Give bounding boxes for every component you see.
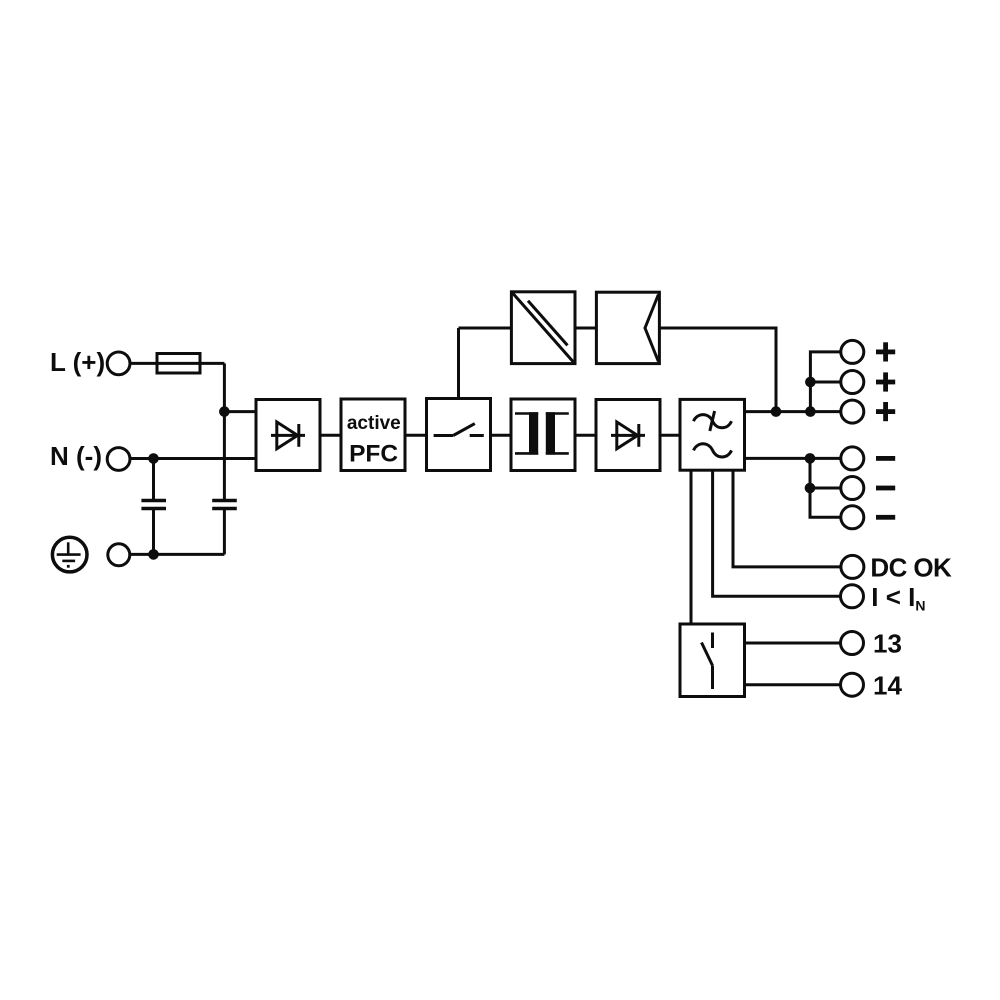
terminal DC OK circle (841, 555, 864, 578)
wire PFC to switch (405, 434, 427, 437)
svg-text:active: active (347, 413, 401, 434)
terminal 13 circle (841, 632, 864, 655)
terminal N circle (107, 448, 130, 471)
wire DC OK (733, 470, 841, 567)
wire relay to 13 (745, 642, 841, 645)
wire switch to transformer (491, 434, 512, 437)
wire minus middle stub (810, 487, 841, 490)
svg-text:DC OK: DC OK (870, 553, 952, 583)
wire diode to filter (660, 434, 680, 437)
terminal minus 2 circle (841, 477, 864, 500)
node ground junction (148, 549, 159, 560)
node feedback junction (771, 406, 782, 417)
wire filter to relay (690, 470, 693, 624)
PFC block (341, 399, 405, 471)
node minus middle junction (805, 483, 816, 494)
capacitor C1 (141, 459, 166, 555)
plus sign 1 (876, 342, 895, 361)
node N junction (148, 453, 159, 464)
switch block S1 (427, 399, 491, 471)
wire transformer to diode (575, 434, 596, 437)
wire N to rectifier (130, 457, 256, 460)
terminal I&lt;In circle (841, 585, 864, 608)
amplifier block (596, 292, 659, 363)
wire relay to 14 (745, 683, 841, 686)
wire minus output (745, 457, 841, 460)
node plus bus junction (805, 406, 816, 417)
svg-text:L (+): L (+) (50, 347, 105, 377)
isolation amplifier block (optocoupler) (511, 292, 575, 364)
plus sign 2 (876, 372, 895, 391)
wire junction to rectifier (224, 410, 256, 413)
plus sign 3 (876, 402, 895, 421)
terminal minus 3 circle (841, 506, 864, 529)
wire fuse corner down to capacitor C2 (223, 363, 226, 500)
wire isolation to amplifier (575, 327, 596, 330)
terminal plus 2 circle (841, 371, 864, 394)
wire L to fuse corner (130, 362, 224, 365)
terminal plus 1 circle (841, 340, 864, 363)
svg-text:PFC: PFC (349, 440, 398, 467)
wire switch top feedback riser (457, 328, 460, 399)
transformer T1 block (511, 399, 575, 471)
relay contact block (680, 624, 745, 697)
fuse F1 (157, 354, 200, 374)
svg-text:14: 14 (873, 671, 902, 701)
node minus bus junction (805, 453, 816, 464)
minus sign 2 (876, 486, 895, 491)
wire plus output (745, 410, 841, 413)
terminal plus 3 circle (841, 400, 864, 423)
wire minus bus dropper (810, 458, 841, 517)
node plus middle junction (805, 377, 816, 388)
wire amplifier to output junction (659, 328, 776, 412)
wire plus middle stub (810, 381, 840, 384)
PE protective earth symbol (52, 537, 87, 572)
svg-text:N (-): N (-) (50, 441, 102, 471)
wire rectifier to PFC (320, 434, 341, 437)
terminal minus 1 circle (841, 447, 864, 470)
wire ground bus (130, 553, 224, 556)
wire feedback to isolation block (459, 327, 512, 330)
terminal 14 circle (841, 673, 864, 696)
minus sign 1 (876, 456, 895, 461)
output filter block (680, 399, 745, 470)
terminal L circle (107, 352, 130, 375)
node L junction (219, 406, 230, 417)
diode block D1 (596, 400, 660, 471)
ground terminal circle (108, 544, 130, 566)
capacitor C2 (212, 501, 237, 555)
rectifier block (256, 400, 320, 471)
wire I&lt;In (713, 470, 841, 596)
wire plus bus riser (810, 352, 840, 412)
minus sign 3 (876, 515, 895, 520)
svg-text:13: 13 (873, 628, 902, 658)
